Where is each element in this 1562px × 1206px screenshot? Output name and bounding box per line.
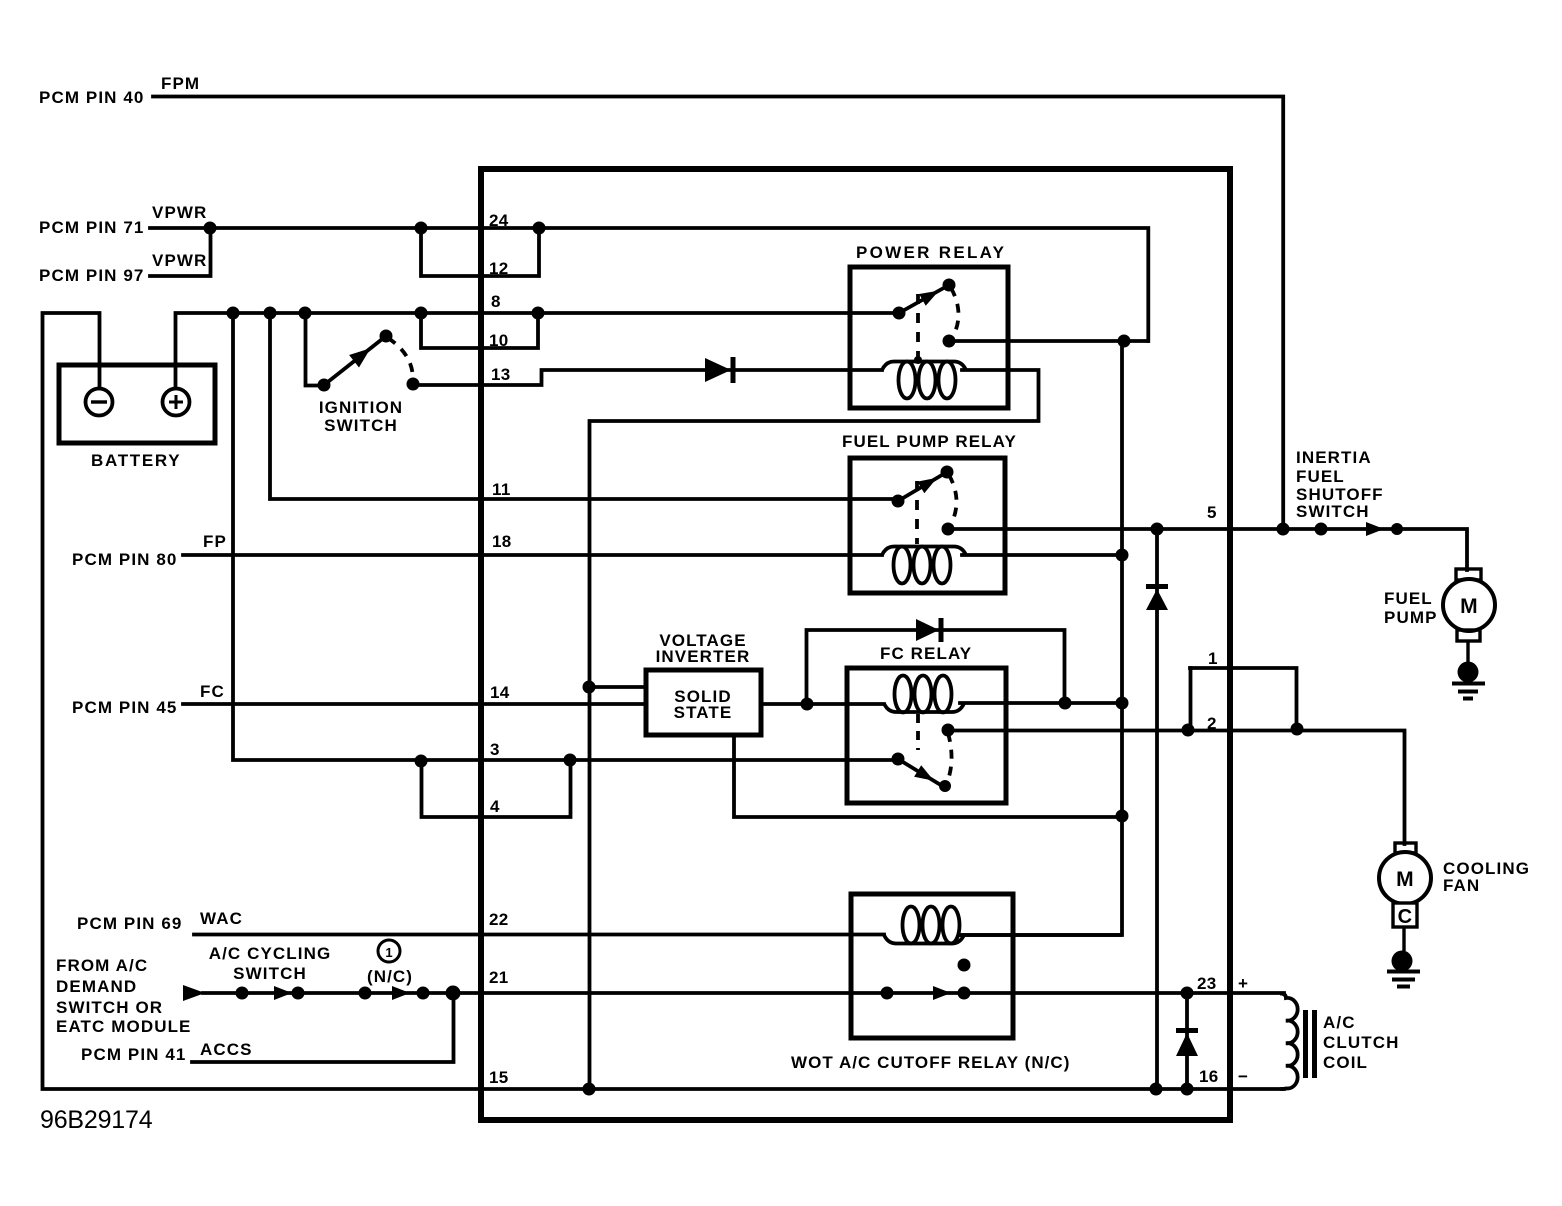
svg-text:FUEL: FUEL <box>1296 467 1345 486</box>
svg-text:IGNITION: IGNITION <box>319 398 403 417</box>
svg-text:STATE: STATE <box>674 703 733 722</box>
svg-text:PCM PIN 97: PCM PIN 97 <box>39 266 144 285</box>
wire battery negative to ground frame and pin15 ground bus <box>43 313 1285 1089</box>
power relay dashed throw <box>951 288 959 340</box>
svg-text:A/C: A/C <box>1323 1013 1356 1032</box>
wire voltage inverter output to FC relay coil <box>761 702 884 706</box>
ignition switch arm <box>324 336 386 385</box>
wire pin12 loop <box>421 228 539 276</box>
wire WAC pin22 to WOT relay coil <box>194 933 884 937</box>
svg-text:M: M <box>1396 868 1414 891</box>
relay U3 FC RELAY box <box>847 668 1006 803</box>
wire VPWR pin97 stub <box>150 228 211 276</box>
wire clutch diode branch x1187 <box>1185 993 1189 1089</box>
wire pin1 loop <box>1189 668 1193 730</box>
diode CR1 on pin13 line <box>705 358 731 382</box>
svg-text:INVERTER: INVERTER <box>656 647 751 666</box>
svg-text:10: 10 <box>489 331 509 350</box>
svg-text:FC RELAY: FC RELAY <box>880 644 972 663</box>
svg-text:PCM PIN 80: PCM PIN 80 <box>72 550 177 569</box>
svg-text:PCM PIN 71: PCM PIN 71 <box>39 218 144 237</box>
wire battery bus drop to ignition switch <box>306 313 323 386</box>
svg-text:11: 11 <box>492 480 511 499</box>
coil of fuel pump relay <box>882 547 966 556</box>
wire pin1 to pin2 outside loop <box>1190 668 1297 728</box>
svg-text:PCM PIN 40: PCM PIN 40 <box>39 88 144 107</box>
svg-text:POWER RELAY: POWER RELAY <box>856 243 1006 262</box>
wire battery bus drop to pin3 line <box>233 313 895 760</box>
diode CR2 on FC coil loop <box>916 619 939 641</box>
svg-text:BATTERY: BATTERY <box>91 451 181 470</box>
diode CR3 on x1157 branch <box>1146 589 1168 610</box>
wire battery positive bus to pin 8 and power relay common <box>176 313 900 391</box>
svg-text:24: 24 <box>489 211 509 230</box>
svg-text:+: + <box>1238 974 1248 993</box>
circled 1 symbol <box>378 940 400 962</box>
fuel pump relay dashed throw <box>949 475 957 528</box>
battery B1 <box>59 365 215 443</box>
svg-text:PCM PIN 45: PCM PIN 45 <box>72 698 177 717</box>
fuel pump motor M1 <box>1456 569 1481 580</box>
wire pin10 loop <box>421 313 538 348</box>
svg-text:PUMP: PUMP <box>1384 608 1438 627</box>
wire battery bus drop to pin11 line <box>270 313 897 499</box>
svg-text:13: 13 <box>491 365 511 384</box>
svg-text:C: C <box>1398 906 1413 928</box>
svg-text:15: 15 <box>489 1068 509 1087</box>
voltage inverter U5 SOLID STATE box <box>646 670 761 735</box>
inertia switch closed contact arrow <box>1366 522 1384 536</box>
WOT relay closed contact arrow <box>933 986 951 1000</box>
svg-text:SWITCH OR: SWITCH OR <box>56 998 163 1017</box>
svg-text:M: M <box>1460 595 1478 618</box>
relay U2 FUEL PUMP RELAY box <box>850 458 1005 593</box>
wire FC relay coil out to rail <box>960 701 1122 705</box>
svg-text:ACCS: ACCS <box>200 1040 253 1059</box>
svg-text:FP: FP <box>203 532 227 551</box>
wire pin5 fuel pump feed line <box>951 529 1467 570</box>
wire voltage inverter return to rail <box>734 735 1122 817</box>
svg-text:FAN: FAN <box>1443 876 1480 895</box>
WOT relay open-throw dot <box>958 959 971 972</box>
svg-text:FC: FC <box>200 682 225 701</box>
svg-text:VPWR: VPWR <box>152 203 207 222</box>
svg-text:WAC: WAC <box>200 909 243 928</box>
ground for fuel pump <box>1458 662 1479 683</box>
svg-text:WOT A/C CUTOFF RELAY (N/C): WOT A/C CUTOFF RELAY (N/C) <box>791 1053 1070 1072</box>
svg-text:PCM PIN 41: PCM PIN 41 <box>81 1045 186 1064</box>
wire pin2 FC relay output to cooling fan <box>951 731 1405 845</box>
svg-text:FPM: FPM <box>161 74 200 93</box>
wire ACCS pin41 riser <box>192 993 454 1062</box>
wire A/C demand line pin21 through WOT switch pin23 to A/C clutch <box>203 991 1284 995</box>
svg-text:FROM A/C: FROM A/C <box>56 956 148 975</box>
coil of WOT relay <box>884 935 964 944</box>
wire WOT relay coil out to rail <box>960 933 1120 937</box>
svg-text:1: 1 <box>1208 649 1218 668</box>
FC relay switch arm <box>898 759 944 787</box>
FC relay dashed throw <box>946 733 952 785</box>
svg-text:23: 23 <box>1197 974 1217 993</box>
wire power relay coil out to ground rail x589 <box>590 370 1039 1089</box>
diode CR4 on clutch branch <box>1176 1033 1198 1056</box>
svg-text:16: 16 <box>1199 1067 1219 1086</box>
relay U1 POWER RELAY box <box>850 267 1008 408</box>
svg-text:2: 2 <box>1207 714 1217 733</box>
wire power relay output contact to vertical <box>951 339 1148 343</box>
svg-text:21: 21 <box>489 968 509 987</box>
svg-text:FUEL PUMP RELAY: FUEL PUMP RELAY <box>842 432 1017 451</box>
svg-text:5: 5 <box>1207 503 1217 522</box>
svg-text:1: 1 <box>385 945 392 960</box>
wire fuel pump relay coil out to rail <box>962 553 1122 557</box>
coil of power relay <box>882 362 966 371</box>
svg-text:INERTIA: INERTIA <box>1296 448 1372 467</box>
arrow head A/C demand input <box>183 985 205 1001</box>
fuel pump relay dashed armature link <box>915 481 919 544</box>
A/C clutch coil L1 <box>1280 994 1298 1090</box>
A/C cycling switch closed contact arrow <box>274 986 292 1000</box>
svg-text:DEMAND: DEMAND <box>56 977 137 996</box>
svg-text:SWITCH: SWITCH <box>324 416 398 435</box>
wire pin14 FC to voltage inverter <box>183 702 646 706</box>
wire VPWR pin71 to pin 24 and to power relay output vertical <box>150 228 1148 341</box>
wire FC coil flyback diode loop <box>807 630 1065 704</box>
svg-text:14: 14 <box>490 683 510 702</box>
svg-text:CLUTCH: CLUTCH <box>1323 1033 1399 1052</box>
N/C switch closed contact arrow <box>392 986 410 1000</box>
svg-text:SWITCH: SWITCH <box>1296 502 1370 521</box>
power relay switch arm <box>899 285 949 313</box>
power relay dashed armature link <box>916 294 920 358</box>
svg-text:8: 8 <box>491 292 501 311</box>
ignition switch dashed throw <box>388 338 413 382</box>
wire diode branch x1157 <box>1155 529 1159 1089</box>
svg-text:18: 18 <box>492 532 512 551</box>
wire pin18 FP to fuel pump relay coil <box>183 553 882 557</box>
wire FPM from PCM PIN 40 to fuel pump feed <box>153 97 1283 530</box>
svg-text:3: 3 <box>490 740 500 759</box>
svg-text:12: 12 <box>489 259 509 278</box>
svg-text:VPWR: VPWR <box>152 251 207 270</box>
svg-text:96B29174: 96B29174 <box>40 1106 153 1134</box>
svg-text:PCM PIN 69: PCM PIN 69 <box>77 914 182 933</box>
svg-text:4: 4 <box>490 797 500 816</box>
fuel pump relay switch arm <box>898 472 947 501</box>
relay U4 WOT A/C CUTOFF RELAY box <box>851 894 1013 1038</box>
ground for cooling fan <box>1392 951 1413 972</box>
svg-text:22: 22 <box>489 910 509 929</box>
svg-text:EATC MODULE: EATC MODULE <box>56 1017 192 1036</box>
cooling fan motor M2 <box>1395 843 1416 853</box>
wire pin3 pin4 jumper loop <box>422 760 571 817</box>
svg-text:COIL: COIL <box>1323 1053 1368 1072</box>
wire ignition switch output to pin13 power relay coil <box>413 370 882 385</box>
svg-text:FUEL: FUEL <box>1384 589 1433 608</box>
svg-text:SWITCH: SWITCH <box>233 964 307 983</box>
wire switched VPWR rail x1122 <box>960 341 1122 935</box>
FC relay dashed armature link <box>916 714 920 750</box>
svg-text:(N/C): (N/C) <box>367 967 413 986</box>
coil of FC relay <box>884 704 964 713</box>
wire ground rail tap to voltage inverter <box>589 685 646 689</box>
svg-text:−: − <box>1238 1067 1248 1086</box>
PCM connector box <box>481 169 1230 1120</box>
svg-text:A/C CYCLING: A/C CYCLING <box>209 944 332 963</box>
